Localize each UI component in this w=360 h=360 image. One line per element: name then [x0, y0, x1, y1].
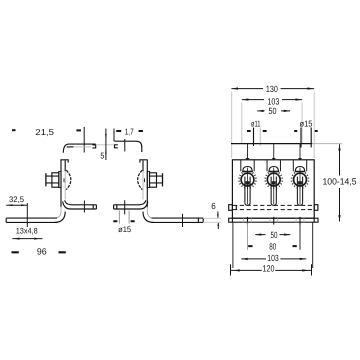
svg-text:50: 50	[271, 230, 278, 240]
svg-text:32,5: 32,5	[9, 195, 25, 204]
svg-text:100-14,5: 100-14,5	[323, 177, 357, 187]
hook centerline ext left	[83, 127, 85, 153]
plate top edge tick middle view	[140, 160, 148, 163]
svg-text:50: 50	[269, 106, 277, 116]
svg-text:21,5: 21,5	[35, 127, 54, 137]
rail hidden line to 5-dim middle	[106, 144, 113, 146]
svg-text:103: 103	[267, 96, 279, 106]
rail tab left	[229, 205, 233, 211]
plate front view	[232, 160, 314, 218]
rail hook end lip left	[92, 145, 95, 148]
hook centerline middle	[124, 139, 126, 152]
dim 5 vertical line	[105, 129, 107, 161]
slot centerline tick	[26, 203, 28, 227]
rail top hook arm left view	[63, 144, 95, 153]
dim 103 line	[242, 99, 302, 101]
dim 50 top line	[257, 110, 290, 112]
dim 120 bottom	[231, 264, 312, 275]
svg-text:80: 80	[269, 242, 276, 252]
ext line hook end middle	[113, 129, 115, 142]
dim 103 bottom	[241, 258, 306, 260]
dim 6 ext lines	[203, 218, 221, 222]
lower strip	[229, 218, 318, 222]
strip dividers	[232, 218, 314, 222]
dim 21,5 left arrow dash	[12, 129, 16, 131]
rail hook end lip middle	[115, 145, 118, 148]
svg-text:5: 5	[100, 151, 104, 161]
dim 96 arrow dashes	[12, 251, 66, 253]
bracket plate middle view inner face	[142, 161, 144, 172]
svg-text:130: 130	[266, 84, 278, 94]
hex head left bolt	[52, 173, 59, 187]
bolt B2	[264, 144, 283, 206]
svg-text:13x4,8: 13x4,8	[16, 227, 38, 236]
bracket plate middle view outer face	[146, 160, 148, 208]
bolt B1	[238, 144, 257, 206]
dim o15 ext lines	[119, 211, 129, 224]
dim o15 right ext lines	[301, 128, 311, 148]
flange outer bend middle view	[143, 212, 154, 223]
dim 100-14,5 line	[339, 144, 341, 221]
plate top edge tick left view	[60, 160, 68, 163]
dim 6 arrows	[217, 212, 219, 218]
dim o11 arrows	[247, 130, 267, 132]
svg-text:96: 96	[37, 246, 47, 256]
svg-text:ø11: ø11	[251, 118, 261, 128]
dome left view	[66, 170, 71, 189]
dim 1,7 arrow dashes	[116, 130, 143, 132]
ext lines 130	[232, 92, 315, 159]
flange outer bend left view	[55, 212, 66, 223]
hex head middle bolt	[150, 173, 157, 187]
dim 13x4,8 line	[12, 238, 42, 240]
washer middle bolt	[147, 171, 149, 187]
dim 21,5 right arrow dash	[76, 129, 81, 131]
tab centerline left	[83, 201, 85, 213]
svg-text:103: 103	[267, 253, 279, 263]
washer left bolt	[59, 171, 61, 187]
bolt end flange left	[45, 173, 47, 186]
rail top line	[231, 143, 312, 145]
ext lines 103	[242, 103, 302, 144]
dim 32,5 line	[6, 204, 27, 206]
lower tab left view	[65, 200, 97, 205]
dim 80 bottom	[248, 245, 297, 247]
tab centerline middle	[124, 200, 126, 214]
svg-text:120: 120	[263, 263, 275, 273]
dashed rail hidden lines	[233, 205, 314, 209]
dim o15 arrows	[113, 220, 134, 222]
bolt end flange middle	[162, 173, 164, 186]
lower tab middle view	[114, 200, 146, 205]
dim 50 bottom	[255, 234, 290, 236]
dome middle view	[138, 170, 143, 189]
bolt B3	[291, 144, 310, 206]
rail hidden line to 5-dim	[96, 144, 105, 146]
dim 130 line	[231, 88, 314, 90]
flange end divider middle	[197, 218, 199, 222]
svg-text:1,7: 1,7	[125, 126, 134, 136]
tick near left tab	[235, 205, 237, 209]
svg-text:ø15: ø15	[118, 225, 132, 234]
svg-text:6: 6	[211, 201, 216, 211]
bolt ext lines below	[247, 223, 249, 250]
dim o15 right arrows	[294, 130, 318, 132]
svg-text:ø15: ø15	[300, 118, 313, 128]
bracket plate left view front face	[60, 160, 62, 208]
bracket plate left view back face	[64, 161, 66, 172]
rail tab right	[314, 205, 318, 211]
dim o11 ext lines	[253, 128, 255, 147]
flange slot centerline middle	[182, 214, 184, 227]
rail top hook arm middle view	[114, 141, 141, 152]
